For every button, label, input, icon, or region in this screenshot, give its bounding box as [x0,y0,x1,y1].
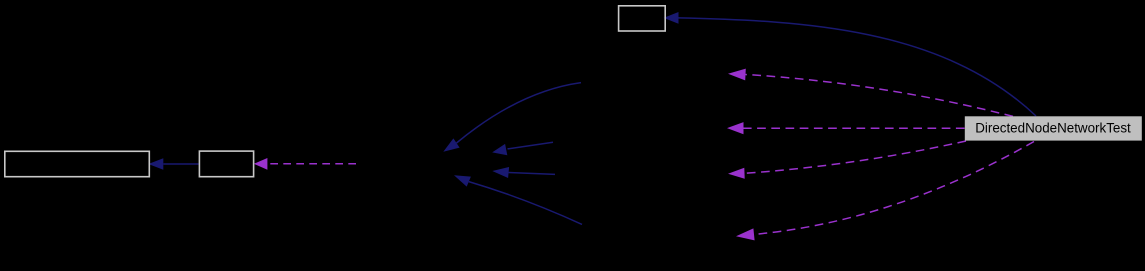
node: DirectedNodeNetworkTest (current) [965,116,1142,140]
edge: lower-center curved arrow [469,182,582,225]
edge: long curved include arrow to top box [679,18,1037,116]
arrowhead center-2 [492,167,509,178]
magenta arrowhead 1 [728,69,746,81]
edge: solid arrow from small box to big left box [163,163,198,165]
arrowhead into top box [664,12,679,24]
node: small box [199,151,253,177]
edge: dashed curve 3 from DirectedNodeNetworkTest bottom-left [745,141,967,173]
arrowhead into big left box [148,158,163,170]
edge: dashed usage arrow into small box [267,163,356,165]
arrowhead lower-center [454,175,471,186]
svg-text:DirectedNodeNetworkTest: DirectedNodeNetworkTest [975,120,1131,135]
edge: dashed curve 1 from DirectedNodeNetworkTest top [746,75,1014,117]
magenta arrowhead 3 [728,168,745,179]
edge: upper-center curved arrow [457,83,582,143]
magenta arrowhead into small box [254,158,268,170]
arrowhead upper-center [443,138,459,151]
node: top box [619,6,666,31]
magenta arrowhead 4 [736,228,755,240]
node: big left box [5,151,150,176]
arrowhead center-1 [492,144,507,155]
edge: dashed horizontal from DirectedNodeNetworkTest left [744,127,965,129]
edge: dashed curve 4 from DirectedNodeNetworkTest bottom [754,142,1034,235]
edge: short center arrow 1 [508,142,554,149]
magenta arrowhead 2 [727,122,744,134]
edge: short center arrow 2 [509,173,555,175]
